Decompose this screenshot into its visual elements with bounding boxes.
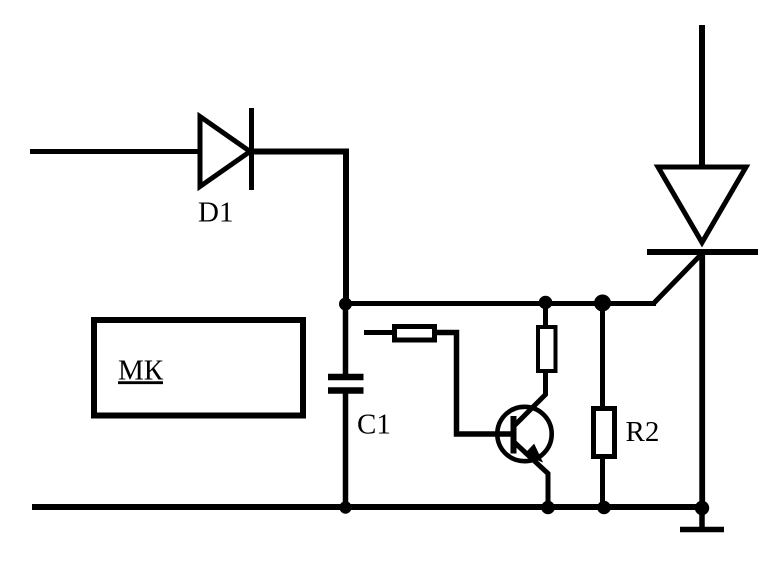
- wire: R2 bottom lead to bottom bus: [600, 457, 605, 507]
- capacitor C1 bottom plate: [328, 387, 364, 394]
- junction dot R2 at bottom bus: [597, 501, 611, 515]
- wire: C1 bottom plate down to bottom bus: [343, 391, 349, 507]
- junction dot C1 at bottom bus: [339, 501, 351, 513]
- wire: down to ground: [699, 508, 705, 527]
- diode D1 cathode bar: [249, 108, 254, 190]
- wire: thyristor cathode down to bottom bus: [699, 252, 705, 507]
- junction dot at R2 top: [594, 295, 611, 312]
- wire: R2 top lead from bus: [600, 305, 605, 408]
- junction dot emitter at bottom bus: [541, 501, 555, 515]
- wire: AC input left to diode anode: [30, 149, 201, 154]
- transistor Q1 emitter arrowhead: [525, 445, 543, 462]
- svg-text:D1: D1: [198, 197, 233, 229]
- MK underline: [118, 381, 163, 384]
- wire: gate diagonal to thyristor: [654, 253, 703, 304]
- svg-text:C1: C1: [357, 409, 391, 441]
- resistor R2: [594, 409, 615, 457]
- box MK (microcontroller): [94, 320, 303, 416]
- wire: MK output lead to base resistor: [364, 330, 393, 335]
- junction dot at collector resistor top: [539, 296, 553, 310]
- transistor Q1 base bar: [511, 416, 517, 454]
- ground: [680, 527, 724, 533]
- transistor Q1 emitter diagonal: [515, 443, 549, 508]
- wire: base resistor to transistor base: [437, 333, 511, 435]
- wire: horizontal bus from node A to gate bend: [345, 301, 656, 306]
- wire: thyristor anode vertical: [699, 25, 705, 167]
- wire: collector resistor bottom to collector bend: [515, 371, 546, 426]
- thyristor VS1 triangle: [658, 167, 746, 243]
- capacitor C1 top plate: [328, 374, 364, 381]
- svg-text:R2: R2: [626, 416, 660, 448]
- node A junction dot: [339, 298, 352, 311]
- junction dot thyristor cathode at bottom bus: [695, 501, 709, 515]
- thyristor cathode bar: [647, 249, 758, 255]
- resistor R3 (collector resistor, vertical): [538, 327, 556, 371]
- wire: bottom bus: [32, 504, 705, 510]
- resistor R1 (base resistor, horizontal): [395, 327, 435, 341]
- transistor Q1 circle: [497, 407, 551, 461]
- wire: diode cathode right then down to node A: [251, 152, 346, 306]
- wire: bus to collector resistor top: [543, 305, 548, 327]
- wire: node A down to C1 top plate: [343, 304, 349, 375]
- diode D1 triangle: [200, 117, 250, 187]
